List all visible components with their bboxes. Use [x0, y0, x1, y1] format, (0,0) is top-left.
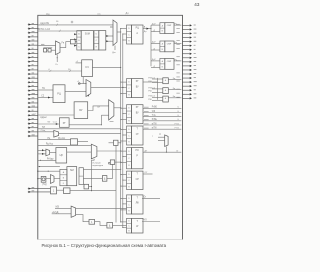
and gate R3 — [163, 96, 169, 102]
right pin 11 label — [194, 65, 196, 67]
mux A (top multiplexer) — [113, 20, 117, 46]
register block 2 input stub 3 — [121, 93, 127, 95]
net row мТИ5 wire — [143, 128, 181, 130]
right pin 12 label — [194, 69, 197, 71]
mux A select stub — [114, 46, 116, 51]
wire RG1 output — [143, 28, 151, 30]
right pin 13 arrow — [190, 73, 192, 75]
right pin 5 label — [194, 40, 197, 42]
latch output 2 — [106, 40, 113, 42]
svg-text:РШ: РШ — [148, 91, 151, 93]
left pin 11 arrow — [28, 65, 38, 67]
wire small box right stub — [118, 142, 121, 144]
left pin 24 net label — [32, 117, 34, 119]
wire y171.2 — [38, 170, 60, 172]
counter mini box 1 — [44, 49, 47, 53]
mux D (address mux) — [109, 100, 114, 120]
right pin 16 wire — [183, 85, 190, 87]
left pin 7 arrow — [28, 48, 38, 50]
right pin 6 net label — [176, 44, 179, 46]
right pin 5 arrow — [190, 40, 192, 42]
wire mini2 to mux B — [51, 49, 55, 51]
left pin 13 net label — [32, 72, 34, 74]
wire y145.4 — [38, 144, 92, 146]
bus tick slash 1 — [50, 70, 52, 72]
wire y208.4 in — [55, 207, 71, 209]
right pin 4 arrow — [190, 36, 192, 38]
register RG small block — [59, 118, 69, 128]
left pin 27 arrow — [28, 131, 38, 133]
mux D lower input drop — [100, 115, 102, 125]
wire RO out — [78, 141, 89, 143]
register block 7 input stub 3 — [121, 209, 127, 211]
net row ЧФ1 source label — [144, 110, 149, 112]
wire CU out — [67, 151, 92, 153]
svg-text:РгВ-С1: РгВ-С1 — [148, 87, 156, 89]
right pin 9 label — [194, 56, 197, 58]
and gate R2 input 2 — [152, 91, 163, 93]
comparator 2 input B — [151, 49, 160, 51]
right pin 15 net label — [176, 80, 179, 82]
right pin 6 wire — [183, 45, 190, 47]
wire SM to latch cells — [93, 39, 96, 41]
bus tick on y31 — [59, 30, 61, 32]
left pin 4 net label — [32, 35, 34, 37]
left pin 15 net label — [32, 80, 34, 82]
register block 1 cells — [127, 25, 132, 44]
register block 7 input stub 1 — [121, 197, 127, 199]
right pin 18 label — [194, 93, 197, 95]
register block 5 cells — [127, 148, 132, 169]
register block 2 body — [132, 79, 144, 98]
left pin 19 net label — [32, 97, 35, 99]
svg-text:ВУП-1 1-16: ВУП-1 1-16 — [38, 29, 51, 31]
svg-text:мТИ: мТИ — [152, 128, 157, 130]
small box RO (y138.8) — [71, 139, 78, 145]
wire BU input — [38, 114, 74, 116]
and gate R1 input 1 — [152, 78, 163, 80]
right pin 19 arrow — [190, 97, 192, 99]
mux C input 1 — [78, 83, 86, 85]
mux B bottom stub — [56, 54, 58, 62]
register block 5 input stub 3 — [121, 162, 127, 164]
svg-text:Fг: Fг — [56, 64, 58, 66]
and-gate box 3 — [107, 223, 113, 229]
wire edge to G — [38, 178, 41, 180]
net row РгВ00 wire — [143, 107, 181, 109]
small box below ALU — [84, 184, 89, 189]
left pin 23 net label — [32, 113, 35, 115]
svg-text:РШ: РШ — [148, 99, 151, 101]
register block 4 input stub 3 — [121, 140, 127, 142]
left pin 18 arrow — [28, 94, 38, 96]
wire or2 out — [95, 222, 107, 226]
left pin 21 net label — [32, 105, 35, 107]
right pin 8 label — [194, 52, 196, 54]
svg-text:мТИ: мТИ — [152, 123, 157, 125]
mini boxes label — [43, 46, 52, 48]
wire y213.8 in — [52, 213, 71, 215]
left pin 8 arrow — [28, 52, 38, 54]
and gate R3 input 1 — [152, 96, 163, 98]
comparator 3 input B — [151, 67, 160, 69]
right pin 4 wire — [183, 37, 190, 39]
svg-text:РгАдр: РгАдр — [47, 158, 54, 161]
mux K input 1 — [158, 136, 165, 138]
left pin 26 arrow — [28, 127, 38, 129]
lower-left pin 1 arrow — [28, 188, 51, 190]
left pin 16 net label — [32, 84, 34, 86]
svg-text:43: 43 — [194, 2, 200, 7]
right pin 7 label — [194, 48, 196, 50]
inverter box S4 — [110, 160, 114, 165]
wire mux C out — [91, 86, 123, 88]
left pin 5 arrow — [28, 40, 38, 42]
svg-text:РгВ0: РгВ0 — [152, 107, 158, 109]
net row РгВн3 wire — [143, 120, 181, 122]
register block 2 input stub 1 — [121, 81, 127, 83]
junction V1 y67.4 — [120, 67, 121, 68]
svg-text:SUM: SUM — [85, 33, 90, 35]
svg-text:CMP: CMP — [167, 25, 172, 27]
svg-text:Wг: Wг — [48, 122, 51, 124]
wire RgAdr y160.3 — [38, 159, 56, 161]
right pin 16 label — [194, 85, 197, 87]
register block 6 body — [132, 171, 144, 189]
mux C select arrow — [88, 94, 90, 96]
right pin 14 net label — [176, 76, 179, 78]
right pin 14 arrow — [190, 77, 192, 79]
right pin 12 wire — [183, 69, 190, 71]
register block 4 input stub 2 — [123, 134, 127, 136]
register block 5 input stub 1 — [121, 150, 127, 152]
cond input arrow 1 — [38, 149, 46, 151]
register block 6 input stub 1 — [121, 174, 127, 176]
right pin 1 net label — [176, 23, 179, 25]
register block 3 input stub 3 — [121, 119, 127, 121]
wire RGa output — [143, 81, 158, 83]
comparator 2 block CMP — [165, 41, 174, 52]
register block 3 input stub 2 — [123, 113, 127, 115]
register block 4 body — [132, 126, 144, 145]
svg-text:Адрес: Адрес — [40, 116, 47, 119]
left pin 28 arrow — [28, 135, 38, 137]
svg-text:РгВ-С1: РгВ-С1 — [148, 96, 156, 98]
counter input 1 — [76, 62, 82, 64]
register block 7 body — [132, 195, 144, 214]
wire mini1 to mini2 — [47, 49, 48, 51]
wire LF output — [142, 197, 160, 199]
net row ЧФ1 wire — [143, 112, 181, 114]
wire mux F down — [92, 159, 95, 191]
left pin 17 net label — [32, 88, 35, 90]
mux C input bubble — [78, 83, 80, 85]
register block 6 cells — [127, 171, 132, 189]
svg-text:РЦ: РЦ — [57, 93, 61, 96]
oscillator G box — [41, 176, 46, 182]
right pin 15 label — [194, 81, 197, 83]
vertical bus x116 — [115, 145, 117, 222]
vertical bus V1 — [120, 29, 122, 223]
svg-text:ЧФ: ЧФ — [152, 110, 155, 113]
right pin 17 net label — [176, 88, 179, 90]
left pin 10 net label — [32, 60, 34, 62]
register block 4 input stub 1 — [121, 129, 127, 131]
ALU block SM2 — [67, 167, 77, 186]
CMP feed vertical x151 — [150, 25, 152, 66]
lower-left pin 1 net label — [32, 187, 35, 189]
register block 3 cells — [127, 105, 132, 124]
svg-text:Ог: Ог — [176, 150, 179, 152]
svg-text:ЛФ: ЛФ — [136, 202, 139, 205]
left pin 27 net label — [32, 130, 34, 132]
wire CT input bus y71 — [38, 70, 82, 72]
left pin 16 arrow — [28, 85, 38, 87]
or-gate box 1 (lower left) — [51, 187, 57, 194]
left pin 25 net label — [32, 122, 34, 124]
left pin 11 net label — [32, 64, 34, 66]
register block 7 input stub 2 — [123, 203, 127, 205]
mux D lower input — [101, 114, 108, 116]
wire into mux E — [38, 131, 54, 133]
wire mux H out long — [76, 207, 127, 209]
ALU out cells — [79, 168, 83, 185]
lower-left pin 2 net label — [32, 190, 35, 192]
right pin 10 net label — [176, 60, 179, 62]
left pin 20 net label — [32, 101, 34, 103]
svg-text:Сбщ: Сбщ — [41, 130, 46, 132]
junction y178.7 — [37, 178, 38, 179]
latch output 1 — [106, 35, 113, 37]
right pin 8 arrow — [190, 53, 192, 55]
and gate R3 input 2 — [152, 100, 163, 102]
wire BU out stepped — [88, 106, 109, 111]
right pin 9 arrow — [190, 57, 192, 59]
right pin 2 label — [194, 28, 197, 30]
mux G2 small — [51, 175, 55, 184]
mux K (right) — [165, 135, 168, 147]
right pin 15 arrow — [190, 81, 192, 83]
right pin 6 label — [194, 44, 196, 46]
right pin 19 label — [194, 97, 197, 99]
right pin 19 net label — [176, 96, 179, 98]
wire S4 out — [115, 161, 121, 163]
svg-text:СЧ: СЧ — [85, 66, 89, 69]
svg-text:ТИ: ТИ — [42, 127, 45, 129]
wire address bus y24.9 — [38, 24, 113, 26]
latch input cells — [94, 31, 99, 50]
register block 2 cells — [127, 79, 132, 98]
wire or1 out — [57, 189, 64, 191]
wire RG small out — [69, 124, 101, 126]
comparator 3 input A — [151, 60, 160, 62]
counter CT block — [82, 60, 93, 77]
wire mux H out 2 — [76, 215, 89, 222]
right pin 9 wire — [183, 57, 190, 59]
vertical bus V2 — [122, 34, 124, 228]
right pin 4 label — [194, 36, 196, 38]
right pin 10 wire — [183, 61, 190, 63]
svg-text:Адр1 Вх: Адр1 Вх — [40, 22, 50, 25]
cond input arrow 2 — [38, 153, 46, 155]
mux K input 2 — [158, 140, 165, 142]
left pin 15 arrow — [28, 81, 38, 83]
mux E2 small (conditions) — [46, 149, 50, 156]
register block 5 body — [132, 148, 144, 169]
net row РгВ00 source label — [144, 106, 149, 108]
wire y166.6 to ALU top — [38, 166, 60, 168]
right pin 2 wire — [183, 28, 190, 30]
svg-text:CMP: CMP — [167, 43, 172, 45]
wire and3 out — [113, 224, 127, 226]
wire P1 input y90 — [38, 89, 53, 91]
svg-text:ЦУ: ЦУ — [60, 154, 64, 157]
left pin 9 arrow — [28, 57, 38, 59]
svg-text:РО: РО — [136, 150, 139, 152]
wire Pg out long — [70, 190, 116, 192]
comparator 1 input A — [151, 24, 160, 26]
left pin 2 arrow — [28, 28, 38, 30]
svg-text:Ог: Ог — [144, 197, 147, 199]
right pin 18 wire — [183, 93, 190, 95]
svg-text:SM: SM — [70, 169, 74, 172]
mux H (bottom left) — [71, 206, 76, 217]
left pin 20 arrow — [28, 102, 38, 104]
right pin 18 net label — [176, 92, 179, 94]
net row мТИ4 wire — [143, 124, 181, 126]
right pin 1 arrow — [190, 24, 192, 26]
register block 3 input stub 1 — [121, 107, 127, 109]
and-gate small (y178) — [102, 176, 107, 182]
right pin 3 arrow — [190, 32, 192, 34]
summator input 3 — [74, 45, 77, 47]
wire SR output stub — [143, 173, 153, 175]
wire drop to summator top — [80, 30, 82, 32]
right pin 18 arrow — [190, 93, 192, 95]
register block 1 input stub C — [123, 33, 127, 35]
and gate R1 input 2 — [152, 81, 163, 83]
svg-text:Дш: Дш — [112, 52, 115, 54]
net row мТИ4 source label — [144, 123, 149, 125]
wire C2 input y97.5 — [38, 97, 53, 99]
right pin 3 net label — [176, 31, 179, 33]
small box x113.5 — [114, 140, 119, 145]
left pin 19 arrow — [28, 98, 38, 100]
junction V2 y87.3 — [122, 87, 123, 88]
chip outline bottom edge (faint) — [38, 239, 183, 241]
svg-text:Рисунок Б.1 – Структурно-функц: Рисунок Б.1 – Структурно-функциональная … — [41, 243, 166, 248]
left pin 17 arrow — [28, 90, 38, 92]
left pin 1 net label — [32, 22, 34, 24]
lower-left pin 2 arrow — [28, 191, 51, 193]
register block 4 cells — [127, 126, 132, 145]
wire Rd y139.6 — [38, 139, 71, 141]
svg-text:РПЗ: РПЗ — [174, 128, 179, 130]
label on y45.4 — [41, 43, 44, 45]
left pin 22 arrow — [28, 110, 38, 112]
net row мТИ5 source label — [144, 127, 149, 129]
inverter bubble — [108, 162, 110, 164]
summator input 1 — [74, 33, 77, 35]
or-gate box 2 — [89, 220, 95, 225]
right pin 11 net label — [176, 64, 179, 66]
right pin 10 arrow — [190, 61, 192, 63]
wire y45.4 from edge — [38, 44, 56, 46]
left pin 23 arrow — [28, 114, 38, 116]
right pin 12 arrow — [190, 69, 192, 71]
svg-text:переходов: переходов — [92, 165, 104, 167]
right pin 10 label — [194, 60, 197, 62]
svg-text:с: с — [152, 135, 153, 137]
svg-text:РгВ-С1: РгВ-С1 — [148, 77, 156, 79]
comparator 3 output — [174, 60, 181, 62]
mux C — [86, 80, 91, 97]
wire TI y128.8 — [38, 128, 121, 130]
wire and-gate out — [107, 164, 113, 178]
register block 3 body — [132, 105, 144, 124]
wire ALU to small box — [82, 186, 85, 188]
left pin 14 arrow — [28, 77, 38, 79]
latch block — [99, 31, 106, 50]
junction y171.2 b — [48, 171, 49, 172]
register block 8 input stub 1 — [121, 221, 127, 223]
left pin 26 net label — [32, 126, 34, 128]
register block 5 input stub 2 — [123, 156, 127, 158]
register block 6 input stub 3 — [121, 185, 127, 187]
wire into and-gate — [83, 177, 102, 179]
comparator 2 output — [174, 42, 181, 44]
left pin 18 net label — [32, 93, 35, 95]
wire mux F out — [97, 150, 121, 152]
register RC block — [53, 85, 65, 103]
and gate R2 output — [168, 88, 181, 90]
and gate R1 output — [168, 79, 181, 81]
net row РгВн3 source label — [144, 119, 149, 121]
left pin 6 net label — [32, 43, 34, 45]
and gate R3 output — [168, 97, 181, 99]
junction y171.2 a — [37, 171, 38, 172]
left pin 28 net label — [32, 134, 35, 136]
wire mux A output to V1 — [117, 31, 121, 33]
right pin 2 arrow — [190, 28, 192, 30]
control block CU — [56, 148, 67, 163]
right pin 3 wire — [183, 33, 190, 35]
right pin 1 wire — [183, 24, 190, 26]
wire small box to riser — [89, 186, 92, 188]
svg-text:(ГЦ): (ГЦ) — [42, 184, 47, 186]
right pin 15 wire — [183, 81, 190, 83]
right pin 7 net label — [176, 48, 179, 50]
and gate R2 input 1 — [152, 88, 163, 90]
mux A input stub — [111, 26, 113, 28]
wire W output — [142, 221, 160, 223]
right pin 13 label — [194, 73, 197, 75]
comparator 3 block CMP — [165, 59, 174, 70]
right pin 13 wire — [183, 73, 190, 75]
label below mux D — [110, 121, 114, 123]
wire mux B out — [60, 42, 70, 48]
register block 6 input stub 2 — [123, 179, 127, 181]
and gate R1 — [163, 78, 169, 84]
right pin 2 net label — [176, 27, 179, 29]
register block 8 cells — [127, 218, 132, 233]
wire VUP bus y31 — [38, 30, 81, 32]
left pin 6 arrow — [28, 44, 38, 46]
ALU input cells — [60, 169, 67, 185]
wire RO output long y152.2 — [143, 151, 181, 153]
summator input cells — [77, 31, 81, 50]
right pin 3 label — [194, 32, 197, 34]
